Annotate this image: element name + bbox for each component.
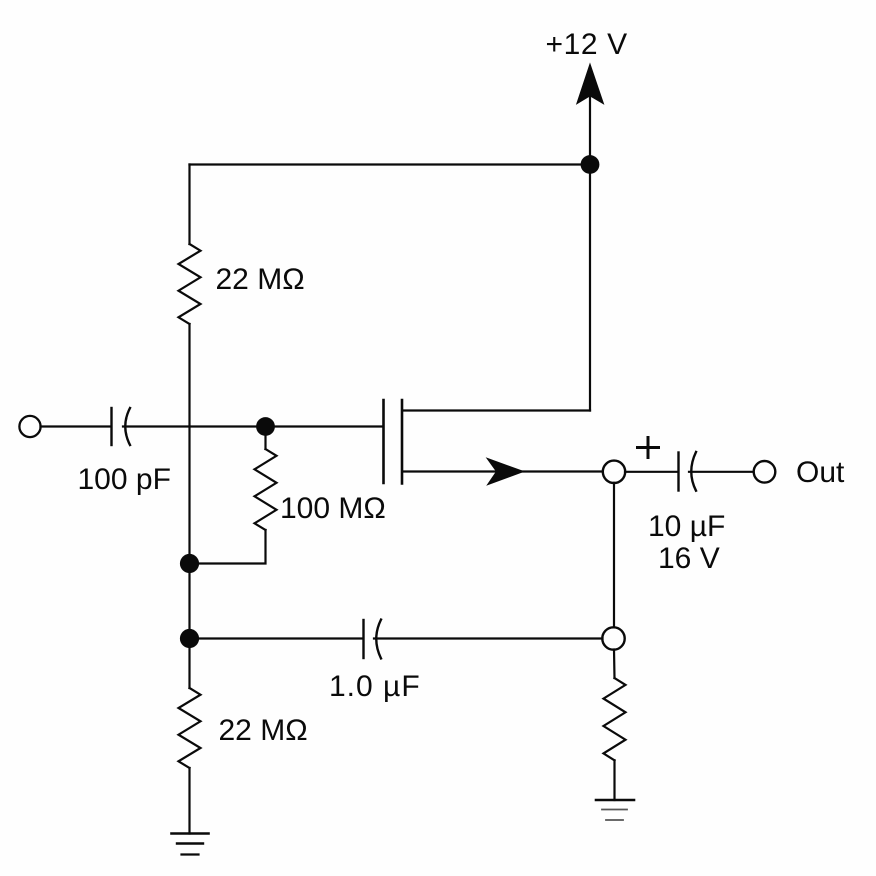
node: bias divider junction dot <box>180 554 199 573</box>
resistor R1 22 MOhm (upper bias) <box>179 244 201 324</box>
plus polarity mark for C3 <box>638 438 659 458</box>
capacitor C2 1.0 uF curved plate <box>376 620 381 659</box>
ground (right) <box>596 799 634 802</box>
node: bypass junction dot <box>180 629 199 648</box>
svg-text:1.0 µF: 1.0 µF <box>329 670 421 703</box>
transistor Q1 gate bar <box>382 400 385 483</box>
svg-text:100 pF: 100 pF <box>78 463 171 496</box>
wire: C1 to gate (through rail crossing) <box>123 425 383 427</box>
node: gate junction dot <box>256 417 275 436</box>
capacitor C3 10 uF curved plate <box>691 452 696 491</box>
wire: source node to C3 <box>625 471 678 473</box>
wire: bias node down to bypass node <box>188 564 190 639</box>
transistor Q1 source arrow <box>487 458 524 484</box>
svg-text:22 MΩ: 22 MΩ <box>219 714 308 747</box>
wire: gate node down to R3 <box>264 427 266 450</box>
wire: drain up to +12V rail junction <box>589 165 591 411</box>
svg-text:100 MΩ: 100 MΩ <box>280 492 386 525</box>
transistor Q1 drain lead <box>403 409 590 411</box>
wire: C2 to bottom junction circle <box>374 637 603 639</box>
wire: R2 to left ground <box>188 768 190 834</box>
svg-text:10 µF: 10 µF <box>648 510 725 543</box>
node: source output circle <box>603 461 625 483</box>
terminal: Out open circle <box>754 461 776 483</box>
wire: arrow to +12V rail junction <box>589 95 591 164</box>
wire: source node down to bottom junction <box>613 483 615 628</box>
node: bottom junction open circle <box>602 627 624 649</box>
wire: R3 bottom lead down then left to bias node <box>190 530 266 564</box>
node: +12V rail junction <box>581 155 600 174</box>
capacitor C3 10 uF left plate <box>677 453 679 491</box>
capacitor C1 100 pF curved plate <box>125 408 130 445</box>
transistor Q1 source lead <box>403 470 603 472</box>
wire: left rail upper (top rail to R1) <box>188 165 190 245</box>
svg-text:+12 V: +12 V <box>546 28 628 61</box>
wire: bypass node to C2 <box>190 637 363 639</box>
wire: bypass node down to R2 <box>188 639 190 689</box>
power arrow (+12 V supply) <box>577 64 604 104</box>
resistor R3 100 MOhm <box>255 449 277 530</box>
ground (left) <box>172 832 209 835</box>
resistor R4 (source load, unlabeled) <box>604 678 626 760</box>
terminal: input open circle <box>19 416 40 437</box>
wire: R4 to right ground <box>613 760 615 800</box>
capacitor C1 100 pF left plate <box>110 408 112 445</box>
wire: bottom junction down to R4 <box>613 650 616 679</box>
wire: input terminal to C1 <box>41 425 112 427</box>
svg-text:Out: Out <box>796 456 845 489</box>
wire: top rail horizontal <box>190 163 591 165</box>
capacitor C2 1.0 uF left plate <box>362 620 364 658</box>
transistor Q1 channel bar <box>401 400 404 484</box>
svg-text:16 V: 16 V <box>658 542 720 575</box>
svg-text:22 MΩ: 22 MΩ <box>216 263 305 296</box>
wire: left rail from R1 down through input crossing to bias node <box>188 324 190 564</box>
resistor R2 22 MOhm (lower bias) <box>179 688 201 768</box>
wire: C3 to Out terminal <box>689 471 754 473</box>
